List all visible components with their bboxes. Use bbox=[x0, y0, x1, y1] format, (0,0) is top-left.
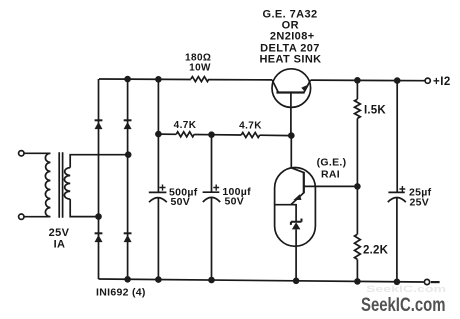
wire U1 zener to bottom rail bbox=[295, 229, 297, 280]
capacitor C1 500uf 50V bbox=[149, 191, 167, 193]
wire top rail down to C3 bbox=[396, 81, 398, 193]
wire between R2 and node bbox=[194, 134, 211, 136]
node bottom rail / filter col bbox=[155, 276, 162, 283]
transformer T1 primary winding bbox=[45, 153, 50, 216]
node secondary bottom / col1 bbox=[95, 213, 102, 220]
wire node to R3 bbox=[212, 134, 242, 136]
transistor Q1 circle (G.E. 7A32 / 2N2108) bbox=[272, 69, 311, 108]
wire primary top lead bbox=[24, 152, 50, 154]
diode D2 (upper right, 1N1692) bbox=[124, 119, 132, 121]
svg-text:RAI: RAI bbox=[321, 169, 340, 181]
svg-text:50V: 50V bbox=[171, 196, 191, 208]
resistor R5 2.2K bbox=[355, 234, 361, 259]
terminal negative output bbox=[424, 279, 429, 284]
svg-text:2N2I08+: 2N2I08+ bbox=[270, 30, 315, 42]
svg-text:25V: 25V bbox=[49, 227, 70, 239]
wire R5 to bottom rail bbox=[356, 259, 358, 281]
wire secondary top lead to bridge column 2 bbox=[70, 155, 128, 168]
node top rail / bridge col2 bbox=[124, 76, 131, 83]
node 4.7K row / filter col bbox=[155, 131, 162, 138]
node Q1 base / R3 / U1 bbox=[288, 132, 295, 139]
transformer T1 primary terminal bottom bbox=[19, 214, 24, 219]
node top rail / C3 col bbox=[394, 77, 401, 84]
terminal +12 output bbox=[425, 78, 430, 83]
resistor R2 4.7K bbox=[176, 132, 194, 137]
wire base node down to R5 bbox=[356, 186, 358, 234]
diode D3 (lower left, 1N1692) bbox=[95, 232, 103, 234]
wire Q1 base down to node bbox=[290, 93, 292, 136]
capacitor C3 25uf 25V bbox=[388, 191, 404, 193]
transistor Q1 base bar bbox=[276, 91, 304, 93]
wire bottom rail bbox=[99, 279, 424, 282]
capacitor C2 100uf 50V bbox=[203, 191, 220, 193]
node top rail / R4 col bbox=[354, 77, 361, 84]
U1 internal shelf wire bbox=[275, 205, 296, 222]
node 4.7K row / C2 col bbox=[208, 131, 215, 138]
node bottom rail / U1 bbox=[293, 278, 300, 285]
svg-text:50V: 50V bbox=[225, 196, 245, 208]
wire secondary bottom lead to bridge column 1 bbox=[70, 199, 98, 217]
wire top rail Q1 emitter to +12 terminal bbox=[311, 79, 425, 82]
reference amplifier U1 (G.E.) RA1 package outline bbox=[275, 168, 316, 247]
wire C1 to bottom rail bbox=[157, 198, 159, 280]
node bottom rail / col2 bbox=[124, 276, 131, 283]
node bottom rail / C2 col bbox=[208, 277, 215, 284]
svg-text:25V: 25V bbox=[410, 196, 430, 208]
transistor Q1 collector lead bbox=[272, 80, 278, 93]
wire 4.7K row left stub bbox=[158, 133, 176, 135]
resistor R1 180ohm 10W bbox=[191, 77, 209, 82]
U1 internal transistor base bar (vertical) bbox=[303, 172, 305, 193]
wire C3 to bottom rail bbox=[396, 198, 398, 282]
wire bridge column 1 bbox=[98, 79, 100, 279]
diode D1 (upper left, 1N1692) bbox=[95, 119, 103, 121]
wire C2 to bottom rail bbox=[211, 197, 213, 280]
svg-text:IA: IA bbox=[54, 239, 66, 251]
svg-text:2.2K: 2.2K bbox=[363, 245, 389, 257]
resistor R3 4.7K bbox=[241, 133, 260, 138]
wire top rail down to R4 bbox=[356, 80, 358, 99]
wire top rail left segment (rectifier output to 180ohm) bbox=[99, 78, 191, 81]
svg-text:I.5K: I.5K bbox=[364, 105, 386, 117]
node bottom rail / R5 bbox=[354, 278, 361, 285]
resistor R4 1.5K bbox=[355, 99, 361, 118]
wire R3 to Q1 base node bbox=[260, 134, 292, 136]
svg-text:SeekIC.com: SeekIC.com bbox=[366, 284, 446, 294]
wire filter column C1 (top rail to cap) bbox=[157, 79, 159, 192]
wire primary bottom lead bbox=[24, 216, 50, 218]
svg-text:SeekIC.com: SeekIC.com bbox=[361, 295, 446, 316]
U1 internal zener diode bbox=[292, 222, 301, 229]
node U1 base / R4 / R5 bbox=[354, 183, 361, 190]
svg-text:INI692 (4): INI692 (4) bbox=[96, 287, 146, 299]
U1 base lead out to 1.5K/2.2K node bbox=[304, 185, 358, 187]
node bottom rail / C3 bbox=[394, 279, 401, 286]
transformer T1 primary terminal top bbox=[19, 151, 24, 156]
transistor Q1 emitter lead with arrow bbox=[304, 80, 311, 92]
svg-text:+I2: +I2 bbox=[433, 76, 451, 88]
wire base node down to RA1 collector bbox=[290, 136, 292, 168]
U1 internal transistor emitter slant with arrow (PNP) bbox=[291, 193, 304, 205]
svg-text:4.7K: 4.7K bbox=[239, 121, 262, 132]
transformer T1 core bbox=[59, 152, 62, 217]
transformer T1 secondary winding bbox=[64, 168, 70, 200]
svg-text:(G.E.): (G.E.) bbox=[317, 156, 347, 168]
wire top rail 180ohm to Q1 collector bbox=[209, 79, 272, 81]
diode D4 (lower right, 1N1692) bbox=[124, 232, 132, 234]
svg-text:10W: 10W bbox=[189, 63, 211, 74]
node top rail / filter col bbox=[155, 76, 162, 83]
wire R4 to base node bbox=[356, 118, 358, 186]
node secondary top / col2 bbox=[125, 151, 132, 158]
svg-text:4.7K: 4.7K bbox=[174, 120, 197, 131]
wire bridge column 2 bbox=[127, 79, 129, 279]
wire C2 column (4.7K row to cap) bbox=[211, 135, 213, 193]
U1 internal transistor collector slant bbox=[291, 168, 304, 173]
svg-text:HEAT SINK: HEAT SINK bbox=[259, 54, 321, 66]
